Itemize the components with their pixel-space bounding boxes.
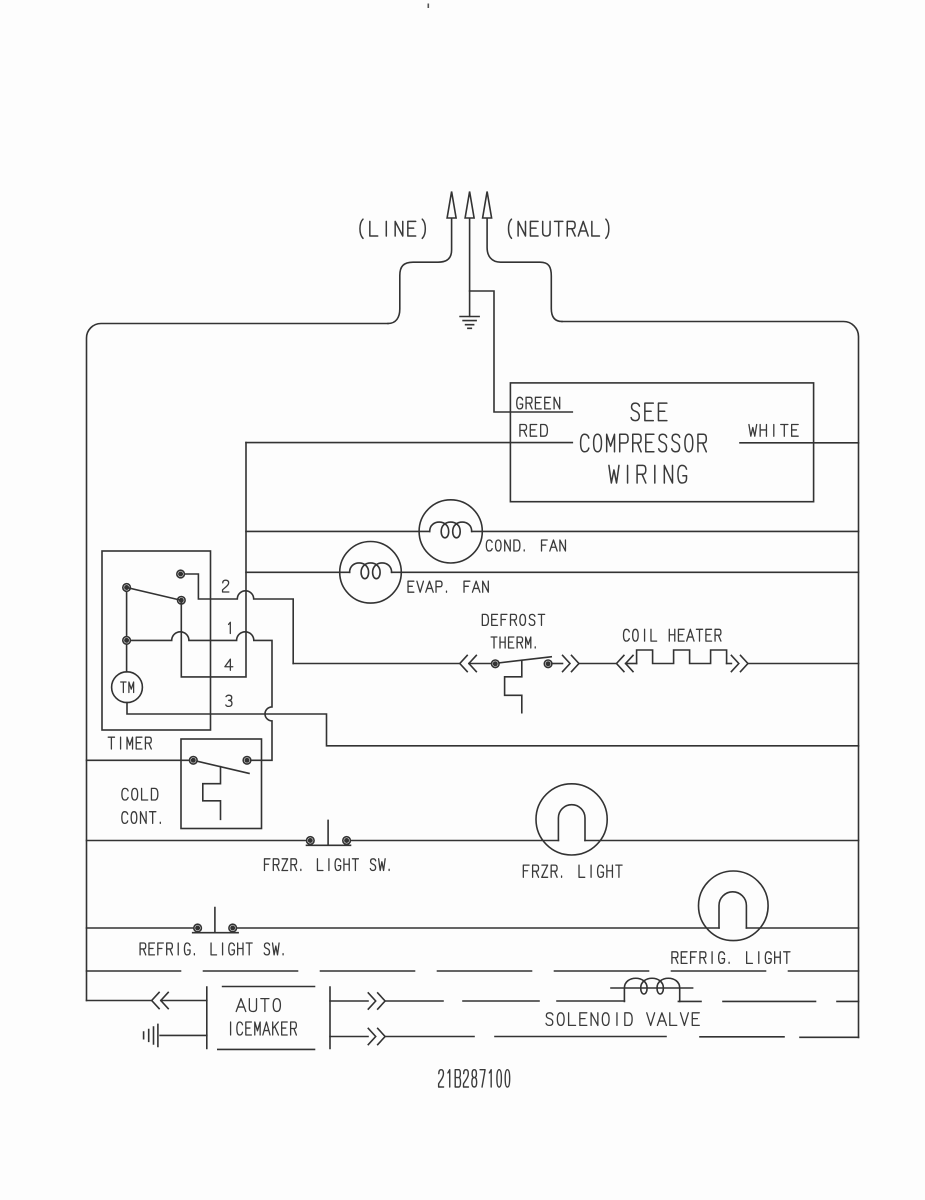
label (NEUTRAL)	[509, 219, 609, 238]
wire defrost line left	[293, 663, 460, 665]
defrost therm sensing element	[505, 660, 522, 712]
connector chevrons >> (defrost out)	[563, 655, 579, 671]
part number 21B287100	[439, 1070, 510, 1087]
defrost therm switch arm	[499, 657, 551, 663]
motor COND FAN	[419, 500, 482, 563]
label COLD	[122, 788, 158, 800]
wire pivot to wire1 terminal	[126, 591, 128, 636]
cold control terminal left	[190, 757, 198, 765]
refrig light switch terminal right	[229, 924, 237, 932]
timer motor TM	[112, 672, 143, 703]
lamp REFRIG LIGHT	[699, 871, 769, 941]
cold control box	[181, 739, 262, 829]
label EVAP. FAN	[408, 581, 488, 592]
auto icemaker box	[207, 987, 330, 1050]
wire left border to icemaker	[87, 1000, 152, 1002]
label REFRIG. LIGHT	[672, 952, 790, 964]
label RED	[520, 425, 547, 437]
wire connector to heater	[626, 663, 637, 665]
wire heater out to right border	[748, 663, 859, 665]
cold control sensing element	[203, 767, 221, 820]
connector chevrons >> (heater out)	[731, 655, 748, 671]
label AUTO	[236, 999, 280, 1012]
timer switch arm	[127, 588, 182, 601]
coil heater element	[637, 650, 727, 664]
timer terminal wire1	[123, 637, 131, 645]
plug prong arrow right	[483, 192, 492, 219]
scan speck	[428, 4, 430, 9]
solenoid core line	[611, 987, 693, 989]
label THERM.	[491, 637, 535, 648]
wire cond fan rail	[246, 530, 859, 532]
wire green branch to compressor box	[470, 291, 573, 412]
label FRZR. LIGHT SW.	[264, 859, 389, 871]
label 4	[225, 659, 233, 670]
plug prong arrow middle	[465, 192, 474, 219]
label COND. FAN	[486, 540, 565, 551]
label ICEMAKER	[231, 1022, 297, 1035]
connector chevrons << (heater in)	[617, 655, 634, 671]
wire 3 (TM to right border)	[127, 703, 859, 746]
wire neutral cord (right prong to border)	[487, 219, 562, 322]
wire frzr light rail	[87, 840, 859, 842]
wire heater to connector	[727, 663, 732, 665]
label TIMER	[108, 737, 151, 749]
wire cold control rail from left border	[87, 759, 190, 761]
wire 1 (timer to cold control)	[130, 632, 272, 760]
connector chevrons << (icemaker in)	[152, 992, 169, 1008]
defrost therm terminal right	[544, 660, 552, 668]
label FRZR. LIGHT	[523, 865, 622, 877]
timer box	[102, 551, 211, 730]
connector chevrons << (defrost in)	[460, 655, 477, 671]
compressor box U1 (SEE COMPRESSOR WIRING)	[510, 383, 813, 502]
wire refrig light rail	[87, 927, 859, 929]
label SEE	[631, 403, 667, 421]
lamp FRZR LIGHT	[536, 784, 607, 855]
wire ground to icemaker box	[160, 1034, 207, 1036]
label REFRIG. LIGHT SW.	[140, 943, 283, 955]
label COMPRESSOR	[581, 434, 707, 452]
wire 4 riser (RED rail down to timer contact)	[181, 443, 246, 677]
timer terminal pivot	[123, 584, 131, 592]
frzr light switch terminal right	[343, 837, 351, 845]
ground symbol (earth)	[460, 317, 479, 329]
cold control terminal right	[243, 757, 251, 765]
label 3	[226, 695, 232, 706]
label 1	[229, 622, 231, 633]
wire WHITE compressor to right border	[740, 442, 859, 444]
timer terminal top (wire 2 fixed contact)	[177, 570, 185, 578]
wire outer border left (LINE side)	[87, 324, 389, 1001]
frzr light switch terminal left	[307, 837, 315, 845]
wire defrost to connector	[552, 663, 563, 665]
label CONT.	[122, 812, 160, 824]
icemaker chassis ground	[144, 1024, 158, 1046]
cold control switch arm	[197, 761, 249, 773]
label DEFROST	[482, 614, 544, 625]
label SOLENOID VALVE	[546, 1013, 699, 1026]
label 2	[223, 580, 229, 592]
wire defrost out to heater connector	[579, 663, 617, 665]
refrig light switch bar and stem	[193, 908, 238, 933]
wire icemaker out bottom	[330, 1036, 368, 1038]
solenoid valve coil	[624, 978, 679, 1001]
label WHITE	[749, 425, 798, 437]
wire to defrost thermostat	[469, 663, 492, 665]
connector chevrons >> (icemaker out top)	[368, 993, 385, 1009]
wire dashed to solenoid	[385, 1000, 624, 1002]
plug prong arrow left	[447, 192, 456, 219]
label COIL HEATER	[624, 629, 721, 641]
wire solenoid to right dashed	[678, 1000, 858, 1002]
label WIRING	[609, 465, 687, 483]
frzr light switch bar and stem	[307, 820, 351, 845]
wire icemaker out top	[330, 1000, 368, 1002]
wire evap fan rail	[246, 571, 859, 573]
motor EVAP FAN	[340, 542, 402, 604]
wire 2 (timer to defrost line)	[184, 574, 293, 664]
wire terminal to TM	[126, 644, 128, 672]
wire connector to icemaker box	[161, 1000, 207, 1002]
defrost therm terminal left	[492, 660, 500, 668]
wire line cord (left prong to border)	[388, 219, 452, 324]
label GREEN	[517, 397, 560, 409]
wire middle prong shaft to ground	[469, 219, 471, 317]
refrig light switch terminal left	[194, 924, 202, 932]
wire dashed bottom rail to border	[385, 1036, 858, 1039]
connector chevrons >> (icemaker out bottom)	[368, 1028, 385, 1044]
wire outer border right (NEUTRAL side)	[562, 322, 859, 1038]
label (LINE)	[360, 219, 425, 238]
timer terminal arm end	[178, 597, 186, 605]
dashed divider rail	[87, 970, 859, 972]
wire RED from node at x246 to compressor	[246, 442, 572, 444]
